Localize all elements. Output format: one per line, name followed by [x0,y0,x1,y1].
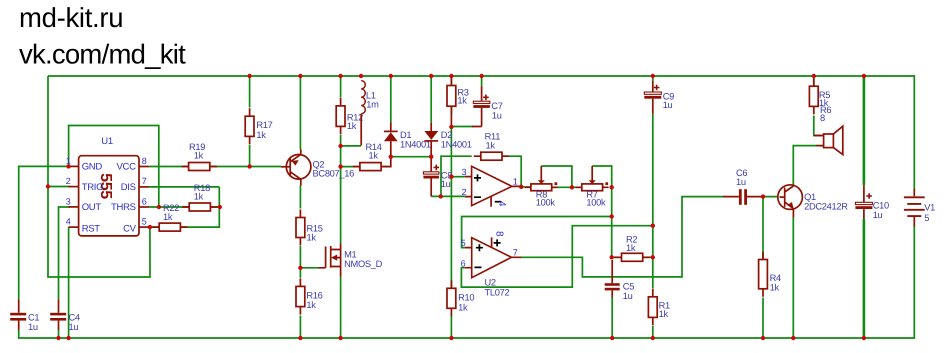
wire R7 node down to R2 left [611,187,613,257]
svg-text:1k: 1k [369,150,379,160]
wire C4 bottom [58,330,60,338]
svg-text:5: 5 [924,213,929,223]
svg-text:100k: 100k [536,198,556,208]
svg-text:CV: CV [123,224,137,235]
op-amp2 plus minus marks [475,239,501,267]
junction Q1 base/R4 [761,194,765,198]
svg-text:1u: 1u [441,179,451,189]
wire Q1 emitter to ground rail [792,218,794,339]
svg-text:100k: 100k [586,198,606,208]
svg-text:1u: 1u [492,111,502,121]
svg-text:1k: 1k [306,300,316,310]
junction L1/R12 [338,144,342,148]
wire R8 wiper loop [541,166,572,187]
junction R18 right [218,205,222,209]
wire C9 line from rail [652,76,654,81]
svg-text:6: 6 [461,258,466,268]
wire Q2 collector from rail [299,76,301,150]
resistor R5 [813,78,815,114]
junction U1 pin1 [66,164,70,168]
junction ground rail x=68.6 [66,336,70,340]
wire C7 bottom to R3 line [451,126,473,128]
svg-text:DIS: DIS [121,182,136,193]
svg-text:1u: 1u [28,322,38,332]
junction ground rail x=340.6 [338,336,342,340]
wire R5 from rail [813,76,815,86]
wire M1 gate [300,267,318,269]
junction ground rail x=652.8 [651,336,655,340]
wire R15 to R16 with gate tap [299,246,301,278]
wire R16 to ground rail [299,316,301,339]
capacitor C8 [423,172,439,174]
wire R10 to ground rail [450,316,452,338]
wire op-amp1 pin3 [451,176,465,178]
svg-text:1k: 1k [458,302,468,312]
wire pin3 node down to R10 [450,177,452,289]
svg-text:1k: 1k [457,95,467,105]
op-amp U2A [472,166,512,205]
capacitor C10 [855,202,872,204]
svg-text:1k: 1k [307,233,317,243]
wire R19 to Q2 base [210,166,281,168]
wire DIS pin7 row [149,186,219,188]
op-amp1 plus minus marks [474,174,481,197]
wire D2 top from rail [430,76,432,123]
svg-text:VCC: VCC [117,161,137,172]
wire D1 top from rail [390,76,392,123]
wire R8 right to R7 left [552,186,582,188]
junction ground rail x=451.4 [449,336,453,340]
svg-text:C7: C7 [491,101,502,111]
resistor R3 [450,78,452,115]
wire GND pin1 to C1 [19,166,70,299]
wire R14 row [341,166,360,168]
wire VCC pin8 to R19 [149,166,188,168]
capacitor C4 [50,313,66,316]
svg-text:C1: C1 [28,312,39,322]
wire RST pin4 down to ground rail [68,227,70,338]
svg-text:1k: 1k [347,121,357,131]
svg-text:7: 7 [513,247,518,257]
wire C5 bottom to ground rail [611,297,613,338]
svg-text:1u: 1u [69,322,79,332]
junction C7/R3 [449,125,453,129]
wire R11 left branch to pin2 node [441,156,472,196]
capacitor C6 [739,189,742,205]
resistor R12 [340,98,342,134]
capacitor C9 [644,92,661,94]
resistor R10 [450,280,452,316]
op-amp U2B [472,238,512,278]
resistor R14 [353,166,388,168]
wire R4 top [762,197,764,260]
svg-text:M1: M1 [344,249,356,259]
junction R17/R19 [247,164,251,168]
junction D2/C8 [429,155,433,159]
resistor R22 [152,226,187,228]
junction D1 bottom [389,155,393,159]
svg-text:1m: 1m [366,100,379,110]
wire pin5 sense line [462,217,612,248]
wire op-amp2 output to C6 [521,197,724,277]
resistor R1 [652,289,654,326]
svg-text:U2: U2 [485,278,496,288]
wire OUT pin3 down to C4 [59,207,71,300]
wire R2 right link [643,256,653,258]
resistor R15 [299,210,301,246]
svg-text:C4: C4 [69,312,80,322]
svg-text:8: 8 [142,156,147,166]
svg-text:BC807_16: BC807_16 [313,169,355,179]
junction C8 bottom [439,194,443,198]
junction ground rail x=612.2 [610,336,614,340]
svg-text:V1: V1 [924,203,935,213]
junction top rail x=249.6 [247,74,251,78]
wire C8 bottom to op-amp pin2 [431,195,465,197]
svg-text:TL072: TL072 [485,287,510,297]
wire R3 line from rail [450,76,452,86]
wire R11 right to output node [501,156,521,187]
svg-text:D2: D2 [441,130,452,140]
wire CV row to R22 [150,226,160,228]
junction TRIG [46,184,50,188]
inductor L1 [361,81,365,114]
junction top rail x=390.8 [389,74,393,78]
svg-text:1u: 1u [736,177,746,187]
svg-text:md-kit.ru: md-kit.ru [19,2,123,33]
wire D1 bottom to D2 bottom [391,156,431,158]
junction top rail x=863.9 [862,74,866,78]
svg-text:5: 5 [461,238,466,248]
wire R2 left link [612,256,622,258]
diode D2 [424,131,438,140]
wire op-amp1 output to R8 [521,186,531,188]
junction top rail x=431.2 [429,74,433,78]
svg-text:1u: 1u [663,100,673,110]
svg-text:6: 6 [142,197,147,207]
wire R4 bottom to ground rail [762,298,764,339]
resistor R18 [182,206,217,208]
svg-text:1k: 1k [626,243,636,253]
wire top supply rail [48,76,914,190]
svg-text:3: 3 [66,197,71,207]
svg-text:TRIG: TRIG [82,182,104,193]
junction ground rail x=863.9 [862,336,866,340]
svg-text:1k: 1k [770,282,780,292]
wire THRS pin6 to R18 [149,206,189,208]
junction top rail x=361 [359,74,363,78]
svg-text:1k: 1k [659,309,669,319]
MOSFET M1 [319,244,341,277]
capacitor C7 [473,101,490,103]
junction top rail x=340.6 [338,74,342,78]
svg-text:2: 2 [66,176,71,186]
junction ground rail x=763 [761,336,765,340]
wire C9 line to R1 [652,257,654,288]
op-amp2 power tick pin8 [491,237,493,248]
junction top rail x=300.4 [298,74,302,78]
U1 pin stubs right [139,166,149,168]
junction THRS [157,205,161,209]
svg-text:2DC2412R: 2DC2412R [804,202,848,212]
svg-text:R10: R10 [458,293,474,303]
svg-text:3: 3 [462,167,467,177]
potentiometer R7 [576,186,609,188]
transistor Q2 [281,150,311,186]
wire L1 bottom to R12 line [341,145,361,147]
svg-text:7: 7 [142,176,147,186]
wire U1 box pin1 to THRS loop [69,126,159,208]
wire R14 right to D1 bottom [381,151,391,167]
resistor R16 [299,278,301,314]
svg-text:GND: GND [82,161,103,172]
resistor R19 [182,166,217,168]
svg-text:D1: D1 [400,130,411,140]
junction R7 right [610,185,614,189]
wire TRIG rail branch down left side [48,76,150,277]
junction CV [148,225,152,229]
junction op-amp1 output [519,185,523,189]
svg-text:1: 1 [513,176,518,186]
svg-text:THRS: THRS [111,202,136,213]
junction top rail x=652.8 [651,74,655,78]
junction R14 tap [338,164,342,168]
svg-text:2: 2 [462,187,467,197]
junction top rail x=813.8 [812,74,816,78]
wire R3 node to pin3 node [450,127,452,177]
wire C10 line from rail [863,76,866,185]
potentiometer R8 [525,186,558,188]
wire R5 to speaker [814,116,824,136]
battery V1 [913,189,915,196]
svg-text:vk.com/md_kit: vk.com/md_kit [19,38,186,69]
junction R2 right [651,255,655,259]
resistor R11 [474,155,509,157]
capacitor C1 [10,313,26,316]
speaker [814,136,824,146]
junction ground rail x=300.4 [298,336,302,340]
junction C9 line [651,224,655,228]
wire pin6 feedback to C9 line [461,226,652,287]
svg-text:8: 8 [493,231,504,237]
diode D1 [390,123,392,132]
wire M1 source to ground rail [340,277,342,339]
wire R12 line from rail [340,76,342,98]
resistor R4 [762,252,764,297]
junction op-amp1 pin3 [449,175,453,179]
wire R3 down to C7 node [450,106,452,127]
transistor Q1 [778,185,803,218]
svg-text:U1: U1 [101,136,113,147]
junction R8/R7 [570,185,574,189]
junction ground rail x=793.3 [791,336,795,340]
resistor R2 [615,256,650,258]
junction R2 left [610,255,614,259]
wire C9 bottom down to R2 right [652,114,654,258]
svg-text:4: 4 [496,201,507,207]
svg-text:1k: 1k [256,130,266,140]
svg-text:5: 5 [142,217,147,227]
svg-text:RST: RST [82,224,101,235]
svg-text:1k: 1k [163,212,173,222]
junction R15/M1 gate [298,266,302,270]
wire speaker lower terminal to Q1 collector [793,146,824,186]
IC U1 555 body [79,156,139,236]
U1 pin stubs left [69,165,79,167]
wire Q2 emitter down to R15 [299,186,301,209]
resistor R17 [249,108,251,144]
svg-text:OUT: OUT [82,202,102,213]
wire R1 to ground rail [652,326,654,338]
capacitor C5 [605,283,620,286]
wire C10 bottom to ground rail [863,219,866,338]
svg-text:R17: R17 [256,120,272,130]
wire C7 top from rail [481,76,483,86]
junction top rail x=481.6 [479,74,483,78]
op-amp1 power tick pin4 [490,197,492,207]
wire C6 right to Q1 base [761,196,780,198]
junction top rail x=451.4 [449,74,453,78]
svg-text:1k: 1k [194,151,204,161]
svg-text:1u: 1u [623,291,633,301]
svg-text:1k: 1k [486,140,496,150]
svg-text:4: 4 [66,217,71,227]
wire bottom ground rail [19,226,915,338]
wire R12 to M1 drain [340,135,342,244]
svg-text:8: 8 [820,113,825,123]
wire R22 right to DIS vertical [180,187,219,227]
svg-text:NMOS_D: NMOS_D [344,259,383,269]
junction ground rail x=58.5 [56,336,60,340]
svg-text:1u: 1u [873,210,883,220]
wire TRIG to pin2 [48,186,70,188]
junction pin5 line [610,214,614,218]
svg-text:1k: 1k [194,192,204,202]
wire R18 right to DIS vertical [210,206,219,208]
wire R7 wiper loop [592,166,612,187]
wire R17 line [249,76,251,108]
svg-text:1N4001: 1N4001 [441,139,472,149]
